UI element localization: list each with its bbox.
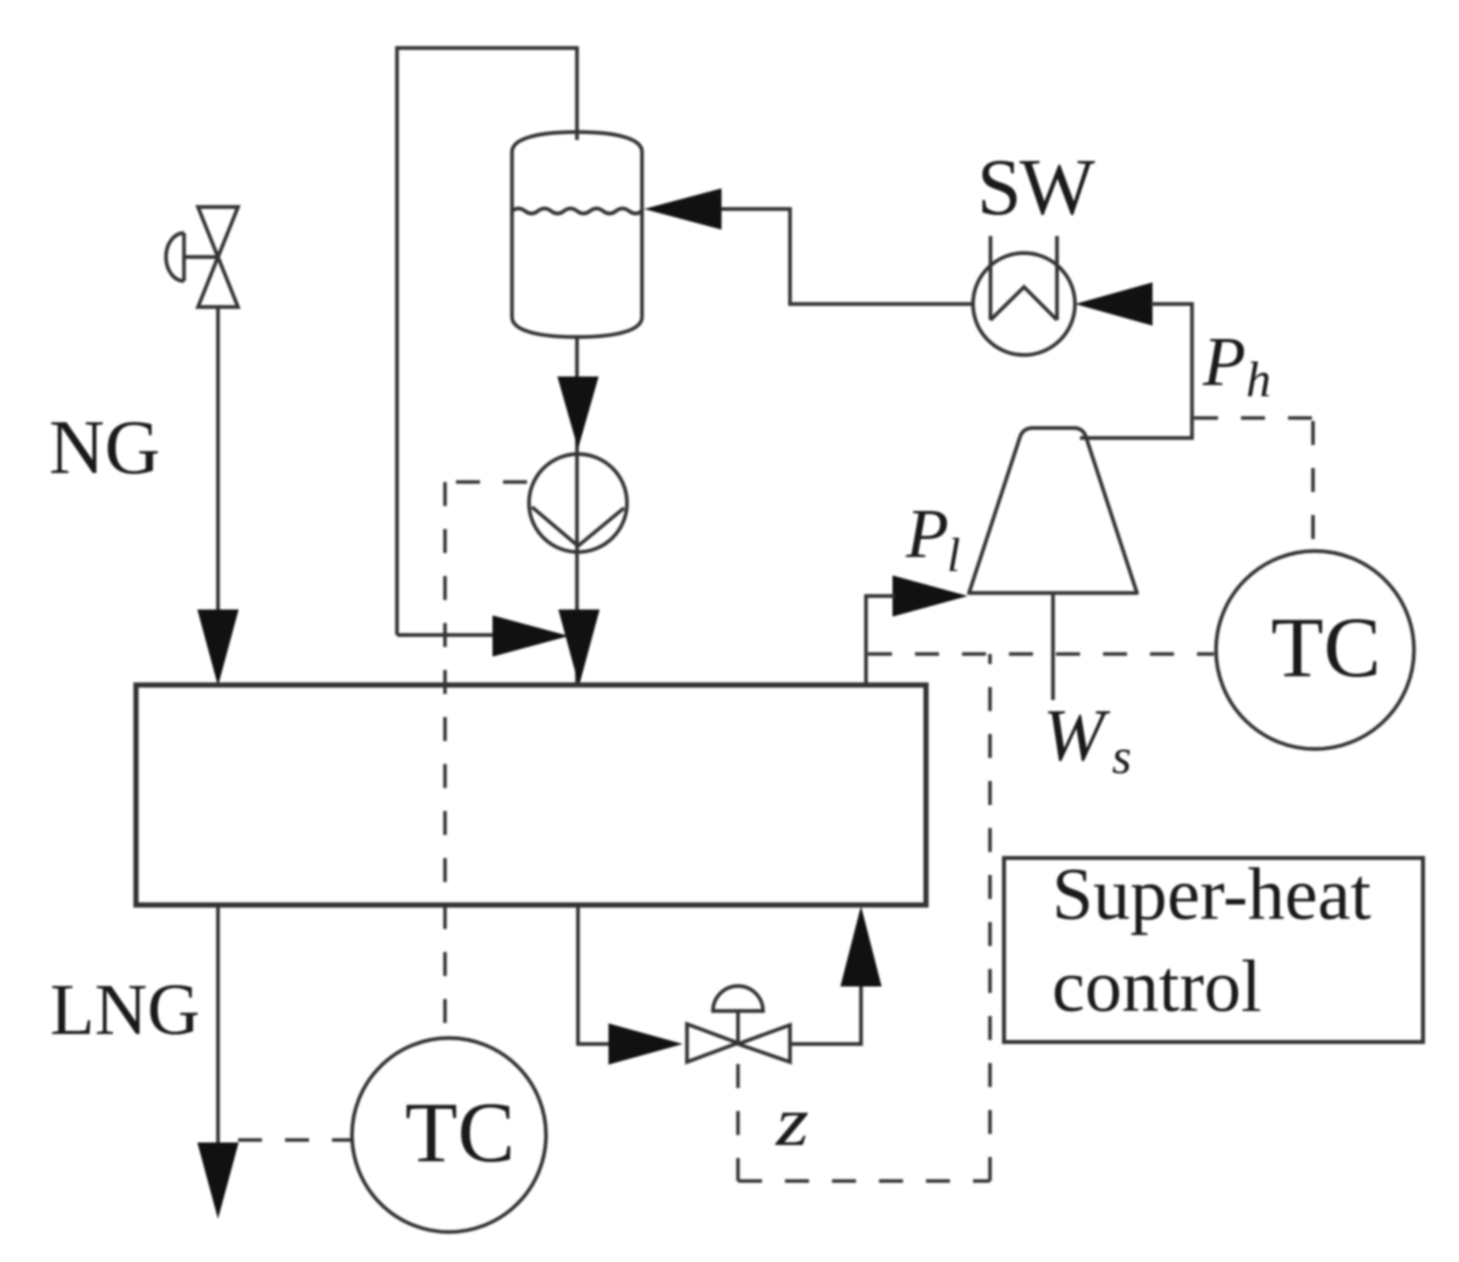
valve Z actuator dome (713, 986, 763, 1011)
svg-text:W: W (1043, 695, 1111, 777)
svg-text:h: h (1246, 351, 1271, 407)
dashed control signal lines (238, 418, 1313, 1181)
dashed signal horizontal at suction line to TC1 (868, 652, 1214, 656)
dashed signal valve Z stem down (736, 1064, 740, 1181)
wire JT valve outlet back to exchanger (790, 985, 861, 1044)
svg-text:SW: SW (977, 144, 1095, 232)
dashed signal TC2 vertical line (443, 482, 447, 1037)
wire vessel outlet down through pump (575, 337, 579, 684)
wire vessel inlet from SW cooler (721, 209, 972, 304)
valve V1 stem (184, 255, 218, 259)
arrow pump outlet into heat exchanger (down) (559, 610, 599, 684)
arrow vessel outlet (down) (558, 377, 598, 447)
arrow Pl into compressor suction (right) (893, 576, 966, 616)
arrow LNG product (down) (198, 1143, 238, 1217)
valve Z (JT / choke valve, horizontal bowtie) (687, 986, 790, 1062)
heat exchanger E1 (main LNG exchanger box) (136, 685, 926, 905)
svg-text:LNG: LNG (50, 969, 200, 1050)
wire vapour loop: up, across top, down to vessel (397, 48, 577, 635)
SW cooler tube ticks (991, 236, 1058, 320)
arrow into JT valve (right) (609, 1024, 681, 1064)
wire NG feed line (216, 307, 220, 616)
SW cooler zigzag (991, 287, 1058, 320)
dashed signal Ph horizontal (1194, 416, 1313, 420)
svg-text:TC: TC (405, 1084, 515, 1180)
svg-text:l: l (947, 529, 960, 582)
valve V1 (NG inlet hand valve, vertical hourglass) (166, 207, 238, 307)
arrow loop return (right) into mixing point (493, 616, 567, 656)
arrow into SW cooler (pointing left) (1077, 283, 1152, 325)
svg-text:TC: TC (1271, 599, 1381, 695)
compressor K1 (trapezoid) (969, 428, 1137, 593)
dashed signal TC2 to pump (horizontal) (445, 480, 527, 484)
arrow vessel inlet (pointing left) (646, 189, 721, 229)
wire LNG product line (216, 905, 220, 1145)
arrow into heat exchanger (NG) (198, 610, 238, 684)
heat exchanger SW (seawater cooler circle) (973, 253, 1075, 355)
Super-heat control box (1004, 858, 1423, 1042)
valve Z stem (736, 1011, 740, 1044)
controller TC2 (bottom temperature controller circle) (352, 1038, 546, 1232)
compressor shaft Ws (1051, 593, 1055, 700)
svg-text:control: control (1052, 946, 1262, 1028)
pump P1 impeller lines (532, 507, 624, 546)
svg-text:P: P (1202, 324, 1246, 401)
liquid level (wavy line) (512, 209, 642, 214)
wire loop bottom segment (397, 633, 495, 637)
arrow return into exchanger bottom (up) (841, 908, 881, 986)
svg-text:z: z (775, 1084, 809, 1161)
pump P1 (circle) (529, 454, 627, 552)
svg-text:Super-heat: Super-heat (1052, 854, 1371, 936)
dashed signal LNG temperature tap to TC2 (238, 1138, 351, 1142)
dashed signal bottom horizontal to super-heat control (738, 1179, 990, 1183)
svg-text:NG: NG (49, 404, 160, 490)
vessel (flash drum / separator) (512, 132, 642, 337)
valve V1 actuator (half-circle) (166, 233, 184, 281)
dashed signal Ph vertical to TC1 (1311, 421, 1315, 549)
wire exchanger cold outlet to JT valve (578, 905, 611, 1044)
svg-text:P: P (905, 496, 949, 573)
dashed signal super-heat control vertical (988, 654, 992, 1181)
wire compressor suction from heat exchanger (866, 596, 895, 685)
controller TC1 (top temperature controller circle) (1216, 551, 1414, 749)
wire compressor discharge to SW cooler (1080, 304, 1192, 438)
svg-text:s: s (1112, 728, 1131, 784)
